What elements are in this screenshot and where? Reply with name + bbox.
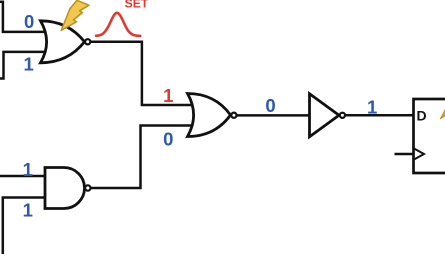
- svg-text:0: 0: [163, 129, 173, 150]
- svg-text:1: 1: [163, 85, 173, 106]
- svg-text:0: 0: [265, 95, 275, 116]
- svg-text:1: 1: [23, 159, 33, 180]
- svg-text:0: 0: [24, 11, 34, 32]
- svg-text:D: D: [417, 108, 427, 124]
- svg-text:1: 1: [23, 54, 33, 75]
- svg-text:1: 1: [23, 199, 33, 220]
- svg-text:1: 1: [367, 96, 377, 117]
- svg-text:SET: SET: [125, 0, 149, 10]
